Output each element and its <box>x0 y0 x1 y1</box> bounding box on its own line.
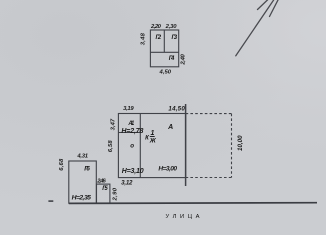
svg-text:Н=2,78: Н=2,78 <box>121 128 143 135</box>
svg-text:Г4: Г4 <box>169 56 175 62</box>
svg-text:Н=3,00: Н=3,00 <box>158 166 177 173</box>
svg-text:3,19: 3,19 <box>123 106 134 112</box>
svg-text:Н=3,10: Н=3,10 <box>122 168 144 175</box>
svg-text:Н=2,35: Н=2,35 <box>72 195 92 202</box>
svg-text:10,00: 10,00 <box>237 135 244 151</box>
svg-text:о: о <box>130 143 134 150</box>
svg-text:6,58: 6,58 <box>108 140 114 153</box>
svg-text:УЛИЦА: УЛИЦА <box>166 214 204 220</box>
svg-text:6,68: 6,68 <box>59 158 65 171</box>
svg-text:3,48: 3,48 <box>141 32 147 45</box>
svg-text:14,50: 14,50 <box>168 106 185 113</box>
svg-text:Г6: Г6 <box>84 165 90 172</box>
svg-text:А: А <box>167 124 173 131</box>
svg-text:3,47: 3,47 <box>110 118 116 130</box>
svg-text:2,40: 2,40 <box>181 53 187 65</box>
svg-text:Г3: Г3 <box>172 35 178 41</box>
svg-text:4,31: 4,31 <box>76 153 88 159</box>
svg-text:3,12: 3,12 <box>121 179 133 186</box>
svg-text:Г2: Г2 <box>156 35 162 41</box>
svg-text:2,30: 2,30 <box>165 24 178 30</box>
svg-text:2,90: 2,90 <box>112 187 118 201</box>
svg-text:А1: А1 <box>127 121 135 127</box>
svg-text:Ж: Ж <box>149 137 157 144</box>
svg-text:2,20: 2,20 <box>150 24 162 30</box>
svg-text:Г5: Г5 <box>102 186 108 192</box>
svg-text:4,50: 4,50 <box>159 69 172 75</box>
svg-text:2,46: 2,46 <box>96 178 106 184</box>
